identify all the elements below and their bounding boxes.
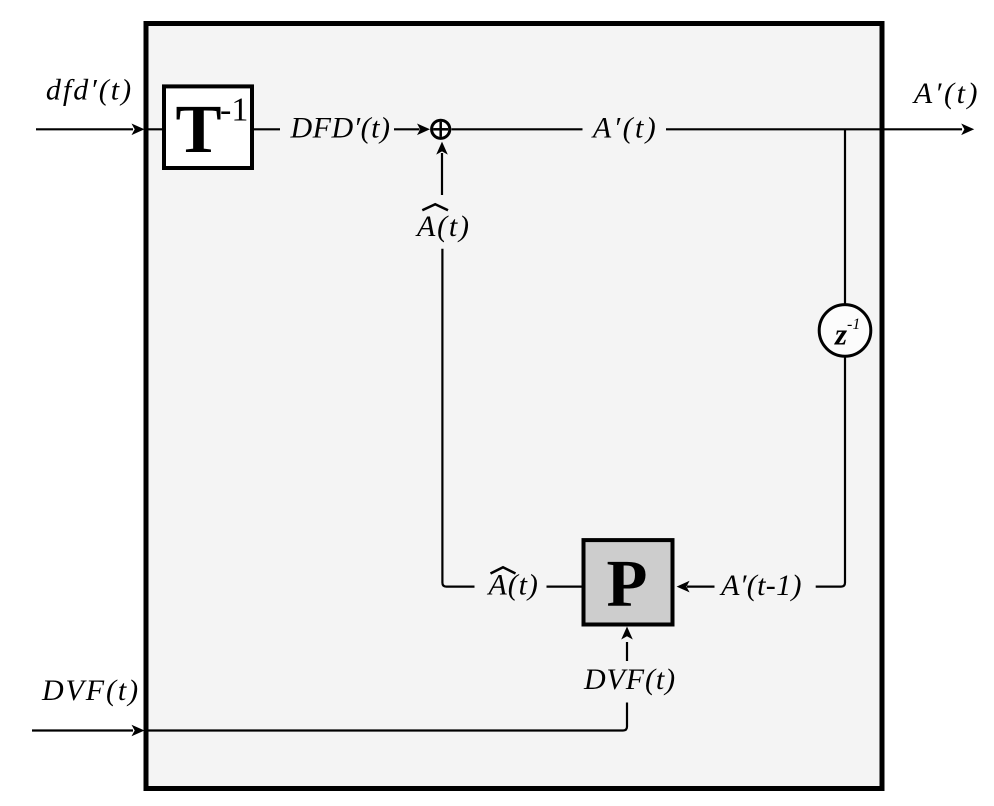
svg-text:DFD′(t): DFD′(t)	[289, 111, 390, 144]
wire dfd input arrow	[36, 128, 133, 130]
svg-text:dfd′(t): dfd′(t)	[46, 74, 133, 107]
svg-text:A(t): A(t)	[415, 210, 471, 243]
wire arrow into adder	[394, 128, 420, 130]
svg-text:DVF(t): DVF(t)	[41, 674, 140, 707]
wire DVF inside to corner	[146, 703, 627, 731]
svg-text:T: T	[176, 91, 222, 167]
wire corner dash to left feedback	[442, 249, 474, 587]
svg-text:z: z	[834, 317, 847, 352]
svg-text:-1: -1	[847, 316, 860, 333]
delay element z-1	[819, 305, 871, 357]
wire feedback down to z-1	[844, 129, 846, 305]
svg-text:-1: -1	[220, 92, 248, 129]
svg-text:A′(t): A′(t)	[591, 111, 658, 144]
svg-text:P: P	[607, 547, 648, 621]
block T inverse transform	[164, 86, 252, 168]
svg-text:A′(t): A′(t)	[912, 77, 980, 110]
wire up into adder	[441, 153, 443, 195]
wire arrow into P bottom	[626, 642, 628, 661]
wire adder to A'(t) label	[452, 128, 583, 130]
svg-text:A′(t-1): A′(t-1)	[719, 569, 802, 602]
wire arrow into P right	[687, 585, 715, 587]
wire box edge to T	[146, 128, 166, 130]
outer system box	[146, 24, 882, 789]
wire A'(t) to output	[666, 128, 962, 130]
wire z-1 down to corner	[816, 356, 845, 586]
adder sum node	[432, 120, 450, 138]
svg-text:DVF(t): DVF(t)	[583, 663, 676, 696]
wire P left out	[547, 585, 584, 587]
wire DVF input arrow	[32, 729, 133, 731]
wire T to DFD label	[252, 128, 280, 130]
block P predictor	[584, 540, 673, 624]
